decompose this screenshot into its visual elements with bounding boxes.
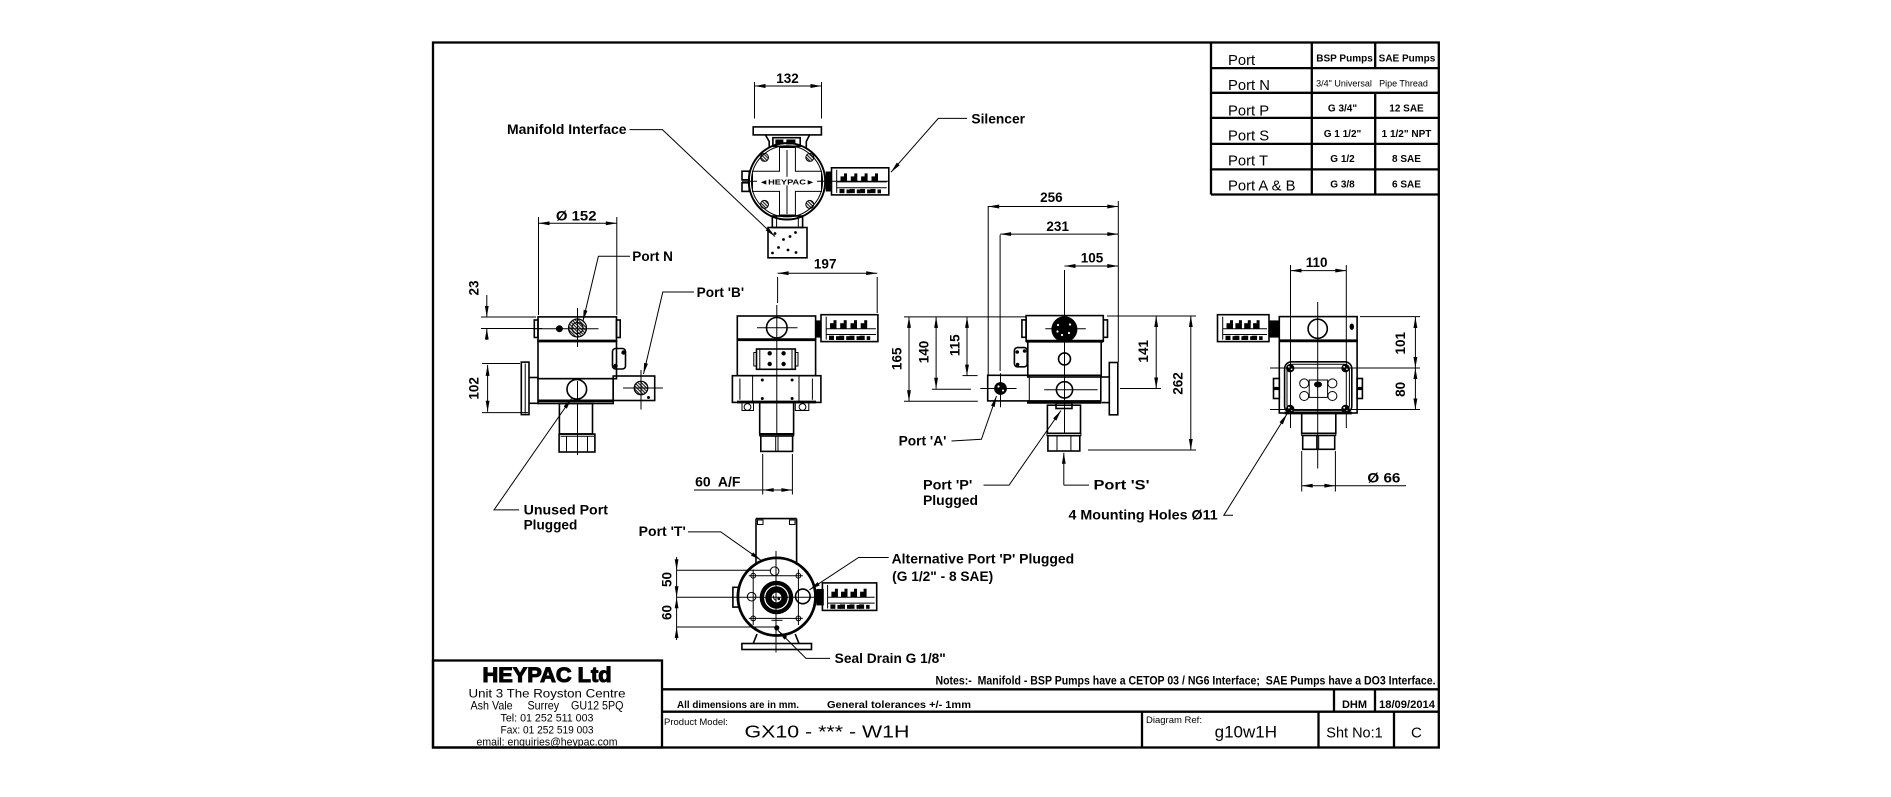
svg-text:141: 141 (1136, 340, 1151, 363)
svg-text:Port T: Port T (1228, 153, 1268, 169)
svg-text:g10w1H: g10w1H (1215, 723, 1277, 742)
svg-text:Ø 152: Ø 152 (556, 209, 597, 224)
svg-text:60 A/F: 60 A/F (695, 475, 740, 490)
svg-text:Port 'A': Port 'A' (899, 434, 947, 449)
svg-text:Port 'T': Port 'T' (639, 524, 686, 539)
svg-text:Sht No:1: Sht No:1 (1326, 726, 1382, 742)
svg-text:Pipe Thread: Pipe Thread (1379, 79, 1428, 89)
svg-text:Diagram Ref:: Diagram Ref: (1146, 715, 1202, 726)
svg-text:HEYPAC Ltd: HEYPAC Ltd (483, 663, 612, 687)
svg-text:8 SAE: 8 SAE (1392, 154, 1421, 165)
svg-text:80: 80 (1393, 382, 1408, 397)
svg-text:(G 1/2" - 8 SAE): (G 1/2" - 8 SAE) (892, 569, 993, 584)
svg-text:Port S: Port S (1228, 128, 1269, 144)
svg-text:Ø 66: Ø 66 (1367, 471, 1401, 486)
svg-text:1 1/2" NPT: 1 1/2" NPT (1382, 129, 1432, 140)
svg-text:Port N: Port N (632, 249, 673, 264)
svg-text:140: 140 (917, 341, 932, 364)
svg-text:60: 60 (660, 605, 675, 620)
svg-text:Port 'S': Port 'S' (1094, 478, 1150, 493)
svg-text:Tel: 01 252 511 003: Tel: 01 252 511 003 (501, 713, 594, 725)
svg-text:email: enquiries@heypac.com: email: enquiries@heypac.com (477, 736, 618, 748)
svg-text:Product Model:: Product Model: (664, 717, 728, 728)
svg-text:Port 'B': Port 'B' (697, 285, 744, 300)
svg-text:110: 110 (1306, 255, 1328, 270)
svg-text:Port A & B: Port A & B (1228, 179, 1296, 195)
svg-text:SAE Pumps: SAE Pumps (1379, 53, 1436, 64)
svg-text:G 3/4": G 3/4" (1328, 104, 1357, 115)
svg-text:Plugged: Plugged (923, 493, 978, 508)
svg-text:262: 262 (1171, 372, 1186, 395)
svg-text:GX10 - *** - W1H: GX10 - *** - W1H (745, 722, 910, 742)
svg-text:BSP Pumps: BSP Pumps (1316, 53, 1373, 64)
svg-text:256: 256 (1040, 190, 1063, 205)
svg-text:Port P: Port P (1228, 103, 1269, 119)
svg-text:Notes:- Manifold - BSP Pumps: Notes:- Manifold - BSP Pumps have a CETO… (936, 676, 1436, 688)
svg-text:G 3/8: G 3/8 (1330, 179, 1355, 190)
svg-text:23: 23 (467, 280, 482, 296)
svg-text:Plugged: Plugged (524, 518, 578, 533)
svg-text:197: 197 (814, 257, 837, 272)
svg-text:231: 231 (1046, 219, 1069, 234)
svg-text:105: 105 (1081, 251, 1104, 266)
svg-text:Alternative Port 'P' Plugged: Alternative Port 'P' Plugged (892, 552, 1075, 567)
svg-text:Port 'P': Port 'P' (923, 478, 972, 493)
svg-text:102: 102 (467, 377, 482, 400)
svg-text:C: C (1411, 725, 1422, 742)
svg-text:General tolerances +/- 1mm: General tolerances +/- 1mm (827, 699, 971, 711)
svg-text:G 1/2: G 1/2 (1330, 154, 1355, 165)
svg-text:115: 115 (948, 334, 963, 356)
svg-text:132: 132 (776, 71, 799, 86)
svg-text:G 1 1/2": G 1 1/2" (1324, 129, 1362, 140)
svg-text:DHM: DHM (1342, 699, 1367, 711)
svg-text:Fax: 01 252 519 003: Fax: 01 252 519 003 (501, 725, 594, 737)
svg-text:Port: Port (1228, 53, 1255, 69)
svg-text:Seal Drain G 1/8": Seal Drain G 1/8" (835, 651, 946, 666)
svg-text:◄HEYPAC►: ◄HEYPAC► (759, 178, 815, 187)
svg-text:4 Mounting Holes Ø11: 4 Mounting Holes Ø11 (1069, 508, 1219, 523)
svg-text:12 SAE: 12 SAE (1389, 104, 1424, 115)
svg-text:165: 165 (890, 347, 905, 370)
svg-text:Ash Vale Surrey GU12 5P: Ash Vale Surrey GU12 5PQ (471, 699, 624, 713)
svg-text:3/4" Universal: 3/4" Universal (1316, 79, 1372, 89)
svg-text:Port N: Port N (1228, 78, 1270, 94)
svg-text:101: 101 (1393, 331, 1408, 354)
svg-text:6 SAE: 6 SAE (1392, 179, 1421, 190)
svg-text:Manifold Interface: Manifold Interface (507, 122, 627, 137)
svg-text:Silencer: Silencer (971, 111, 1025, 126)
svg-text:Unused Port: Unused Port (524, 503, 609, 518)
svg-text:All dimensions are in mm.: All dimensions are in mm. (677, 699, 799, 711)
svg-text:18/09/2014: 18/09/2014 (1379, 699, 1436, 711)
svg-text:50: 50 (660, 572, 675, 587)
